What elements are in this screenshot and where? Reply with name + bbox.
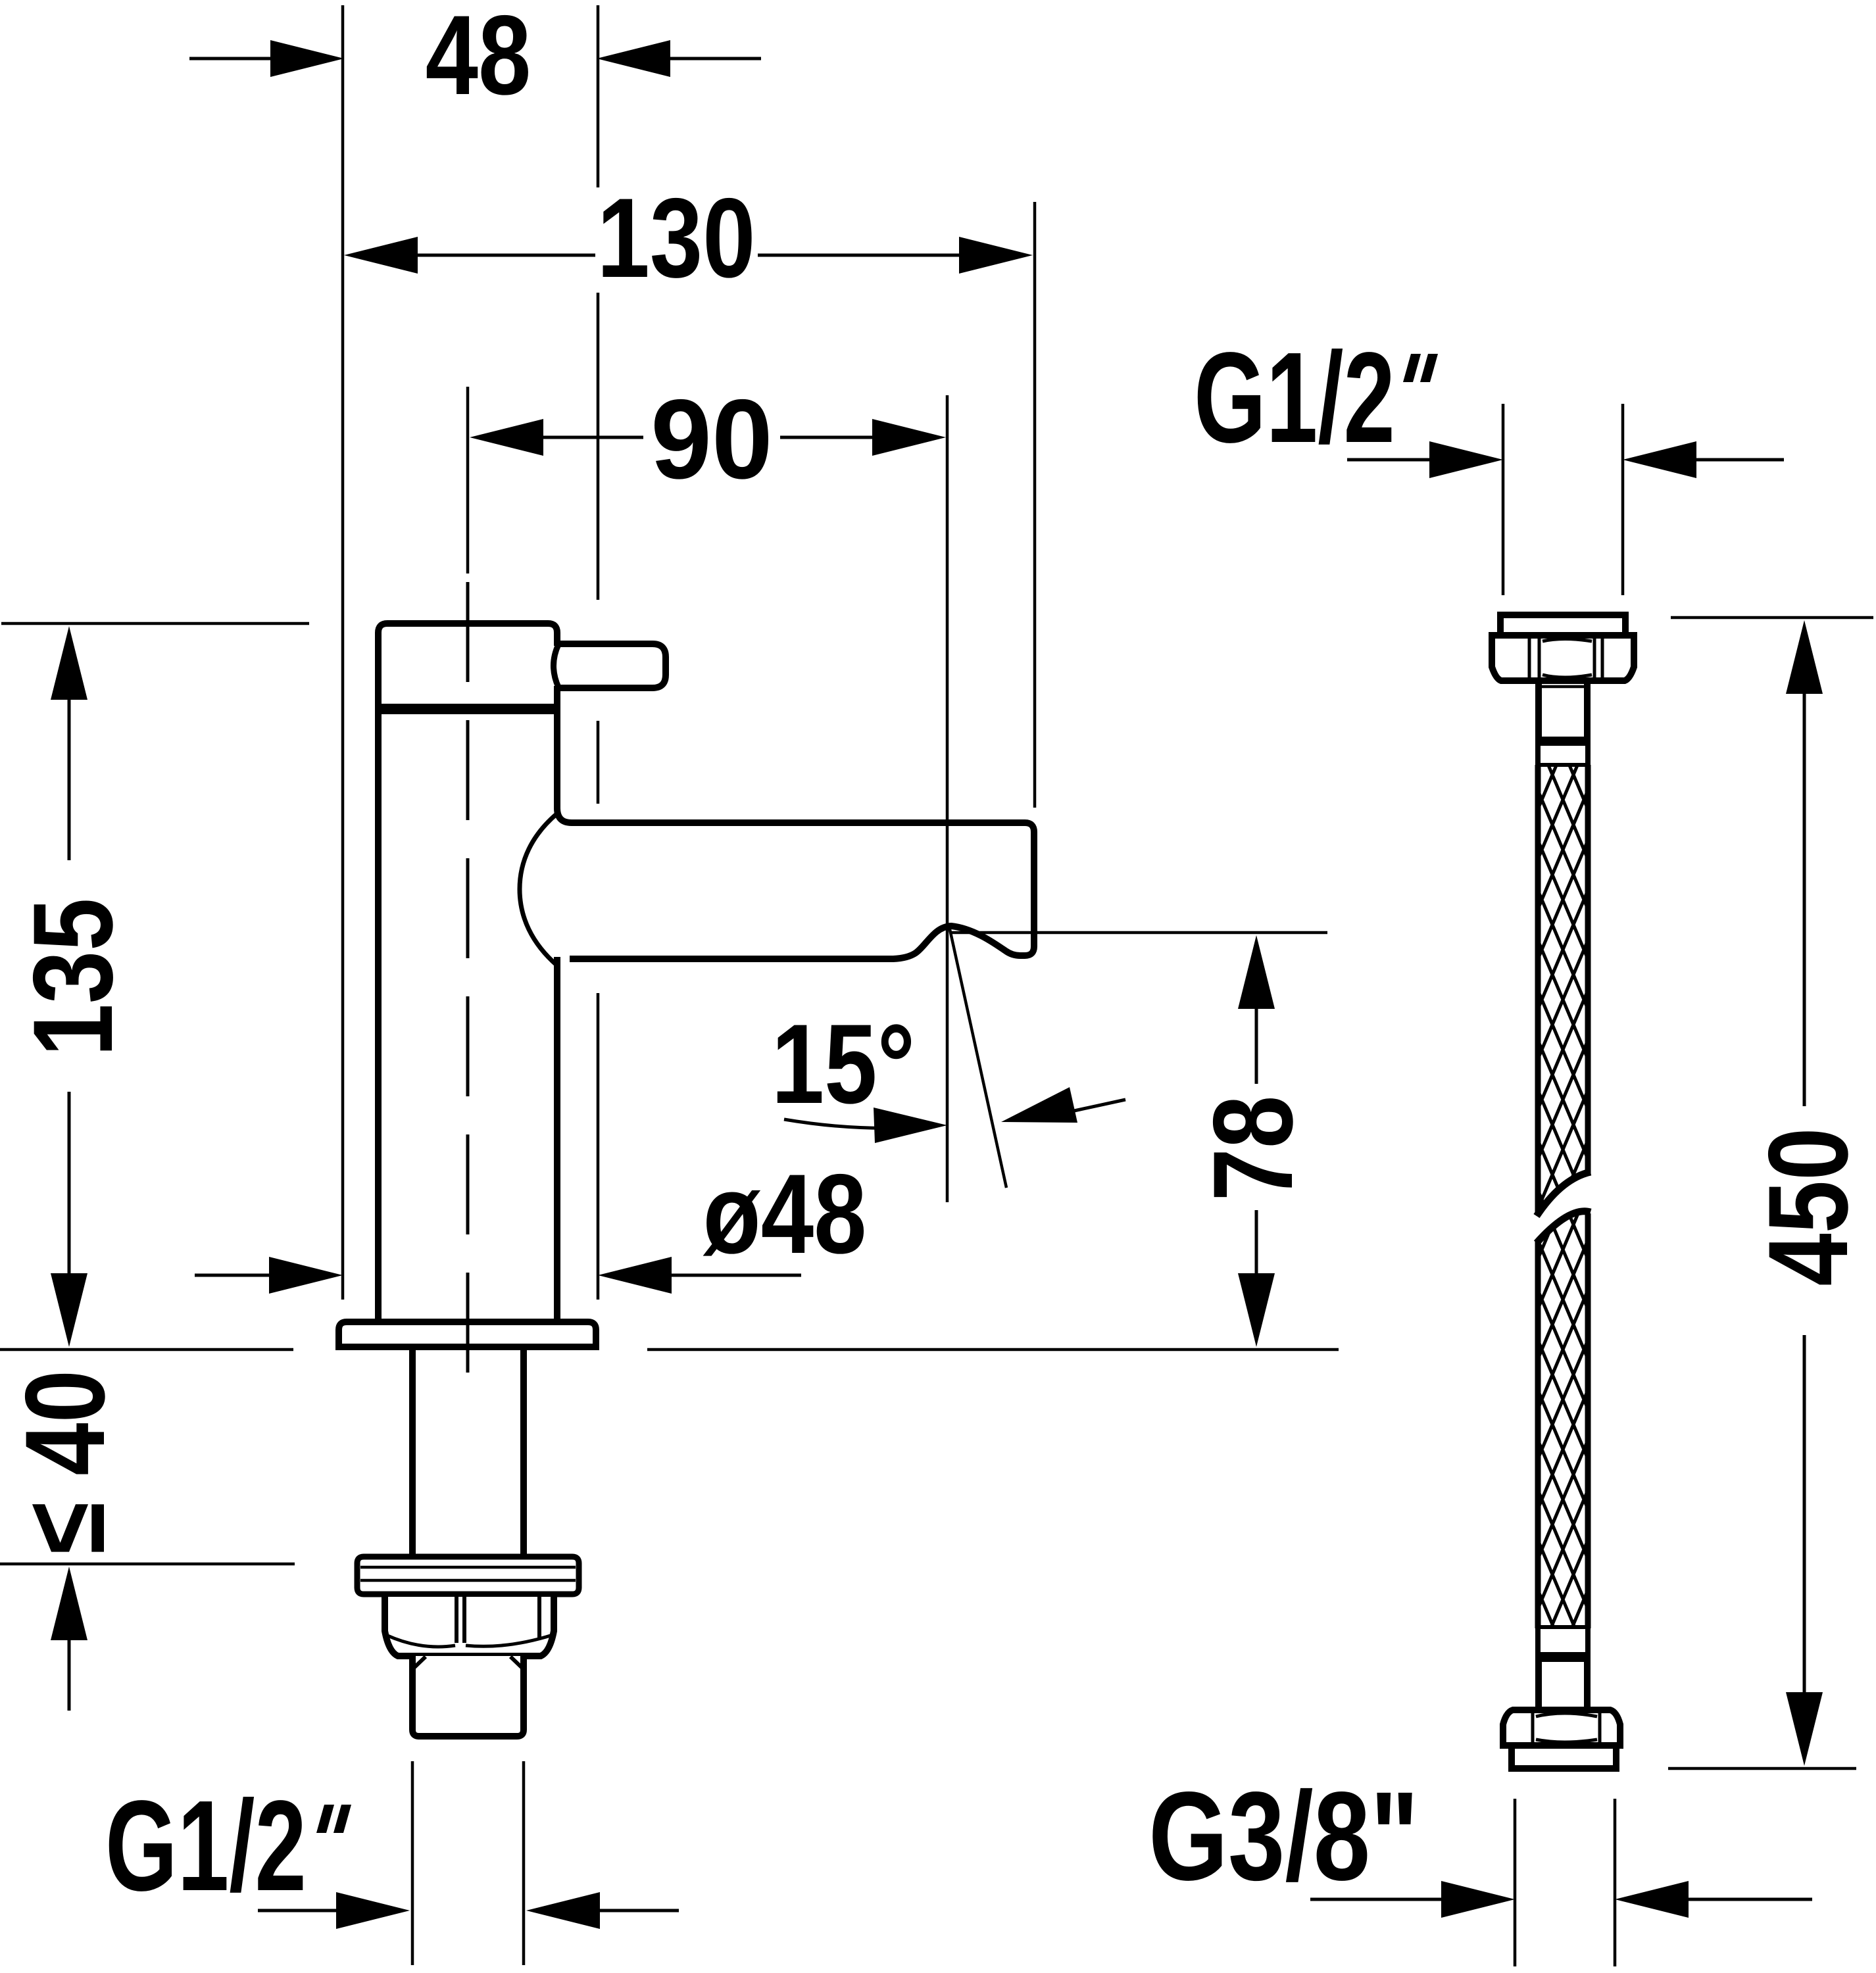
threaded shank walls xyxy=(409,1350,416,1556)
svg-text:G1/2: G1/2 xyxy=(1194,326,1395,470)
svg-text:G1/2: G1/2 xyxy=(105,1774,307,1918)
svg-text:G3/8": G3/8" xyxy=(1148,1766,1419,1907)
hose top hex nut xyxy=(1492,635,1634,681)
dimension ø48 xyxy=(195,1150,866,1294)
svg-text:48: 48 xyxy=(426,0,531,118)
extension line outlet centre (x=1440) xyxy=(946,395,949,1202)
hose bottom hex nut xyxy=(1503,1710,1620,1745)
spout / body intersection arc xyxy=(520,814,557,965)
G3/8 dimension arrows xyxy=(1310,1898,1441,1901)
dimension 135 (left) xyxy=(1,623,309,1347)
dimension 48 (top) xyxy=(189,0,761,118)
angle 15° xyxy=(772,923,1125,1188)
svg-text:130: 130 xyxy=(597,174,755,301)
svg-text:≤ 40: ≤ 40 xyxy=(1,1370,128,1554)
G1/2 dimension arrows (hose nut) xyxy=(1347,458,1429,462)
svg-text:90: 90 xyxy=(651,376,773,502)
tap centreline (dashed) xyxy=(466,582,470,1401)
extension line right for 130 (spout tip, x=1573) xyxy=(1033,202,1037,808)
dimension 450 xyxy=(1668,618,1873,1768)
base flange xyxy=(339,1322,596,1347)
hose bottom collar xyxy=(1535,1662,1542,1710)
handle (lever) xyxy=(557,644,666,688)
crimp band xyxy=(1535,737,1591,746)
hose top fitting cap xyxy=(1500,615,1625,635)
svg-text:ø48: ø48 xyxy=(703,1150,867,1277)
G3/8 extension lines xyxy=(1514,1799,1517,1966)
body left wall xyxy=(375,714,382,1323)
body right wall lower xyxy=(554,957,560,1323)
15° slanted line xyxy=(949,923,1006,1188)
G1/2 dimension arrows (tap tail) xyxy=(258,1909,336,1912)
svg-text:78: 78 xyxy=(1189,1096,1316,1202)
svg-text:135: 135 xyxy=(9,898,136,1056)
leader arrow to slanted line xyxy=(1074,1100,1125,1111)
hose bottom cap xyxy=(1512,1745,1616,1768)
dimension 130 xyxy=(344,174,1033,301)
svg-text:450: 450 xyxy=(1744,1127,1871,1286)
tap cap (head) xyxy=(382,627,554,707)
G1/2 extension lines (hose nut) xyxy=(1502,404,1505,595)
leader arrow to vertical line xyxy=(784,1119,933,1128)
hose bottom ferrule xyxy=(1535,1625,1591,1629)
dimension ≤40 xyxy=(0,1370,295,1711)
dimension 78 xyxy=(950,933,1327,1347)
extension line right of tap base (x=909, broken at labels/handle/spout) xyxy=(597,5,600,1300)
extension line left of tap base (x=521) xyxy=(341,5,345,1300)
lock nut xyxy=(385,1597,554,1656)
G1/2 tail pipe xyxy=(412,1656,524,1736)
dimension 90 xyxy=(468,376,946,573)
lower washer xyxy=(357,1557,579,1594)
G1/2 extension lines (tap tail) xyxy=(411,1761,414,1965)
cap bottom band xyxy=(375,704,560,714)
svg-text:15°: 15° xyxy=(772,1000,915,1127)
body right wall upper (neck) + spout top xyxy=(557,714,1034,959)
mounting deck line xyxy=(0,1348,293,1352)
braided hose lower section xyxy=(1541,1214,1585,1627)
white collar xyxy=(1535,746,1541,764)
hose neck below nut xyxy=(1535,681,1542,738)
braided hose upper section xyxy=(1541,767,1585,1213)
